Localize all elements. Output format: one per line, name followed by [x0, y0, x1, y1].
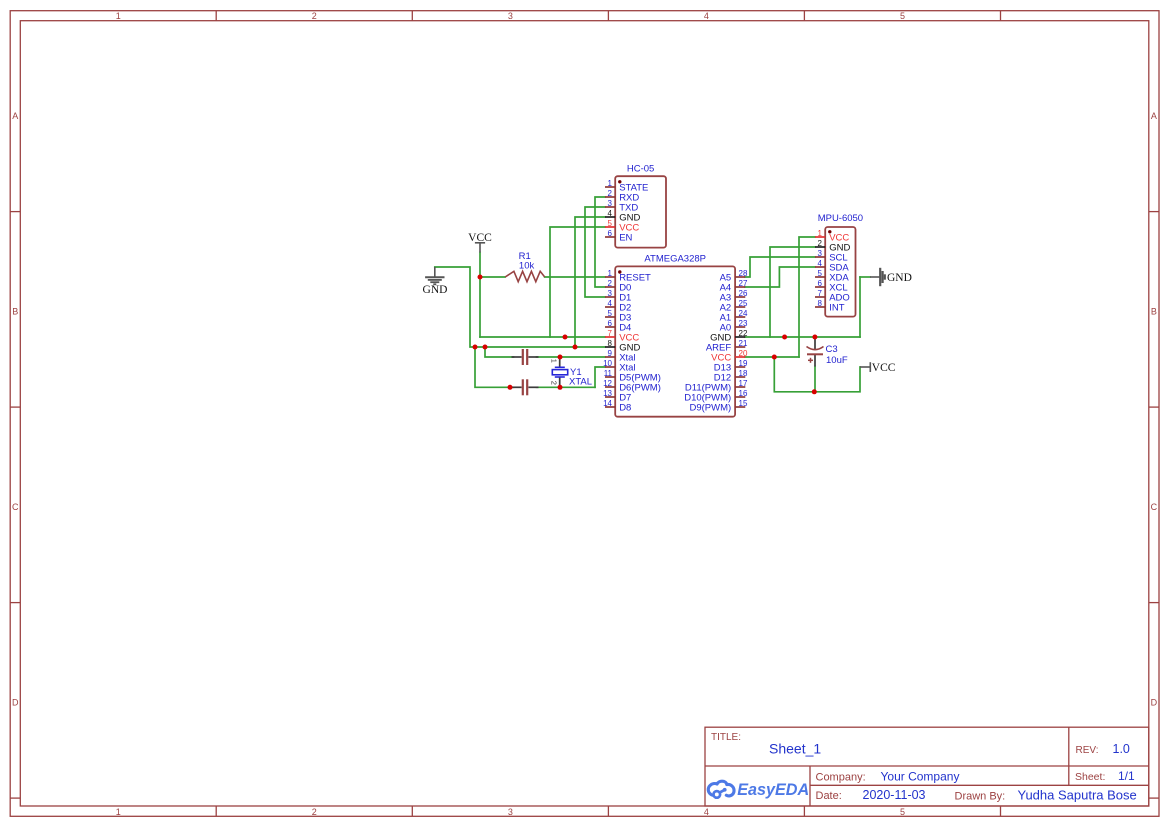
svg-text:26: 26 — [739, 289, 748, 298]
svg-text:EasyEDA: EasyEDA — [737, 781, 809, 799]
svg-text:XTAL: XTAL — [569, 377, 592, 388]
svg-text:20: 20 — [739, 349, 748, 358]
svg-text:3: 3 — [508, 807, 513, 817]
svg-text:Sheet:: Sheet: — [1075, 771, 1105, 783]
svg-text:5: 5 — [818, 269, 823, 278]
svg-text:EN: EN — [619, 233, 632, 244]
svg-text:GND: GND — [887, 272, 912, 284]
svg-text:7: 7 — [818, 289, 823, 298]
svg-text:17: 17 — [739, 379, 748, 388]
svg-text:MPU-6050: MPU-6050 — [818, 213, 863, 224]
svg-text:5: 5 — [608, 309, 613, 318]
svg-text:C: C — [1151, 502, 1158, 512]
svg-text:1: 1 — [550, 359, 559, 363]
svg-text:4: 4 — [704, 807, 709, 817]
svg-text:8: 8 — [608, 339, 613, 348]
svg-text:2: 2 — [312, 11, 317, 21]
svg-text:5: 5 — [900, 807, 905, 817]
svg-text:3: 3 — [608, 199, 613, 208]
svg-text:11: 11 — [604, 369, 613, 378]
svg-text:6: 6 — [818, 279, 823, 288]
svg-text:A: A — [12, 111, 18, 121]
svg-text:Sheet_1: Sheet_1 — [769, 740, 821, 756]
svg-text:14: 14 — [603, 399, 612, 408]
svg-text:15: 15 — [739, 399, 748, 408]
svg-text:2: 2 — [608, 189, 613, 198]
svg-text:5: 5 — [900, 11, 905, 21]
svg-text:Company:: Company: — [816, 771, 866, 783]
svg-text:HC-05: HC-05 — [627, 164, 654, 175]
svg-text:7: 7 — [608, 329, 613, 338]
svg-text:10: 10 — [603, 359, 612, 368]
svg-text:8: 8 — [818, 299, 823, 308]
svg-text:6: 6 — [608, 229, 613, 238]
svg-text:1.0: 1.0 — [1113, 742, 1130, 756]
svg-text:1: 1 — [608, 269, 613, 278]
svg-text:25: 25 — [739, 299, 748, 308]
svg-text:2: 2 — [312, 807, 317, 817]
svg-text:1: 1 — [608, 179, 613, 188]
svg-text:Your Company: Your Company — [881, 769, 960, 783]
svg-text:B: B — [12, 307, 18, 317]
svg-text:1: 1 — [818, 229, 823, 238]
svg-text:13: 13 — [603, 389, 612, 398]
svg-text:2: 2 — [550, 381, 559, 385]
svg-text:2: 2 — [818, 239, 823, 248]
svg-text:9: 9 — [608, 349, 613, 358]
svg-text:28: 28 — [739, 269, 748, 278]
svg-text:REV:: REV: — [1076, 745, 1099, 756]
svg-text:12: 12 — [603, 379, 612, 388]
svg-text:INT: INT — [829, 303, 845, 314]
svg-text:C: C — [12, 502, 19, 512]
svg-text:18: 18 — [739, 369, 748, 378]
svg-text:21: 21 — [739, 339, 748, 348]
svg-text:4: 4 — [608, 299, 613, 308]
svg-text:27: 27 — [739, 279, 748, 288]
svg-text:4: 4 — [608, 209, 613, 218]
svg-text:TITLE:: TITLE: — [711, 732, 741, 743]
svg-text:D: D — [12, 698, 19, 708]
svg-text:C3: C3 — [826, 344, 838, 355]
svg-text:6: 6 — [608, 319, 613, 328]
svg-text:Yudha Saputra Bose: Yudha Saputra Bose — [1018, 787, 1137, 802]
svg-text:4: 4 — [818, 259, 823, 268]
svg-text:3: 3 — [818, 249, 823, 258]
svg-text:A: A — [1151, 111, 1157, 121]
svg-text:10k: 10k — [519, 261, 535, 272]
svg-text:2: 2 — [608, 279, 613, 288]
svg-text:B: B — [1151, 307, 1157, 317]
svg-text:10uF: 10uF — [826, 355, 848, 366]
svg-text:5: 5 — [608, 219, 613, 228]
svg-text:VCC: VCC — [872, 362, 896, 374]
svg-text:1/1: 1/1 — [1118, 769, 1135, 783]
svg-text:D: D — [1151, 698, 1158, 708]
svg-text:22: 22 — [739, 329, 748, 338]
svg-text:Date:: Date: — [816, 790, 842, 802]
svg-text:ATMEGA328P: ATMEGA328P — [644, 254, 706, 265]
svg-text:D8: D8 — [619, 403, 631, 414]
svg-text:2020-11-03: 2020-11-03 — [863, 788, 926, 802]
svg-text:1: 1 — [116, 11, 121, 21]
svg-text:24: 24 — [739, 309, 748, 318]
svg-text:1: 1 — [116, 807, 121, 817]
svg-text:GND: GND — [423, 284, 448, 296]
svg-text:Drawn By:: Drawn By: — [955, 790, 1006, 802]
svg-text:3: 3 — [508, 11, 513, 21]
svg-text:3: 3 — [608, 289, 613, 298]
svg-text:19: 19 — [739, 359, 748, 368]
svg-text:D9(PWM): D9(PWM) — [689, 403, 731, 414]
svg-text:16: 16 — [739, 389, 748, 398]
svg-text:4: 4 — [704, 11, 709, 21]
svg-text:23: 23 — [739, 319, 748, 328]
